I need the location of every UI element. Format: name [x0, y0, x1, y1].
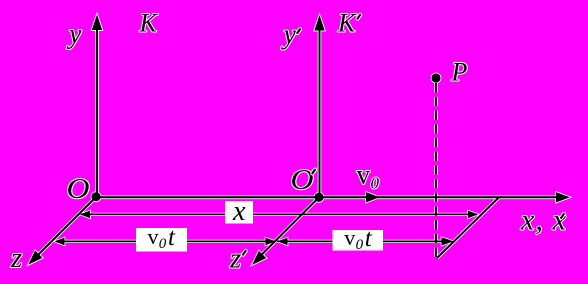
v0t right measure line	[277, 240, 452, 242]
svg-text:O: O	[291, 163, 314, 195]
svg-text:K: K	[139, 9, 159, 38]
z'-axis arrowhead	[252, 251, 266, 265]
y'-axis arrowhead	[314, 15, 324, 31]
y'-axis casing	[318, 25, 322, 197]
P projection dashed line casing	[434, 83, 437, 258]
z'-axis casing	[260, 197, 320, 256]
origin O dot	[91, 192, 100, 201]
y-axis	[96, 24, 98, 197]
v0t right measure arrowheads	[278, 238, 288, 246]
svg-text:v: v	[357, 160, 371, 190]
svg-text:t: t	[168, 224, 176, 251]
svg-text:y: y	[66, 19, 82, 50]
label K' prime tick	[358, 15, 361, 19]
z'-axis	[260, 197, 320, 256]
v0 arrowhead casing	[366, 192, 380, 202]
svg-text:O: O	[67, 172, 90, 204]
x measure line casing	[81, 213, 477, 216]
x,x'-axis arrowhead casing	[556, 192, 570, 202]
svg-text:z: z	[229, 243, 241, 275]
y'-axis arrowhead casing	[314, 15, 324, 31]
y'-axis	[319, 25, 321, 197]
svg-text:x: x	[232, 196, 246, 227]
v0t right measure line casing	[277, 240, 452, 243]
svg-text:v: v	[344, 225, 355, 250]
v0t left measure line casing	[56, 240, 275, 243]
label x, x' prime tick	[561, 214, 564, 218]
x label white box	[225, 201, 253, 224]
svg-text:K: K	[337, 9, 357, 38]
x measure line	[81, 213, 477, 215]
v0 arrowhead	[366, 192, 380, 202]
svg-text:y: y	[281, 20, 297, 51]
x,x'-axis casing	[96, 196, 557, 200]
v0t right label white box	[333, 230, 384, 251]
svg-text:0: 0	[371, 174, 380, 193]
svg-text:0: 0	[159, 236, 167, 252]
x,x'-axis arrowhead	[556, 192, 570, 202]
P projection dashed line	[435, 83, 437, 258]
svg-text:x, x: x, x	[520, 203, 567, 236]
label z' prime tick	[243, 251, 246, 255]
point P dot casing	[431, 73, 440, 82]
y-axis casing	[95, 24, 99, 197]
x,x'-axis	[96, 196, 557, 198]
svg-text:0: 0	[356, 237, 364, 253]
z'-axis arrowhead casing	[252, 251, 266, 265]
origin O dot casing	[91, 192, 100, 201]
x measure right arrowhead	[468, 211, 478, 219]
v0t left measure arrowheads casing	[55, 238, 65, 246]
y-axis arrowhead	[92, 15, 102, 31]
v0t left measure arrowheads	[55, 238, 65, 246]
v0t right measure arrowheads casing	[278, 238, 288, 246]
svg-text:z: z	[10, 242, 22, 274]
x measure left arrowhead	[80, 211, 90, 219]
plane right edge casing	[437, 197, 499, 258]
x measure left arrowhead casing	[80, 211, 90, 219]
z-axis arrowhead casing	[28, 251, 42, 265]
y-axis arrowhead casing	[92, 15, 102, 31]
v0t left label white box	[136, 228, 187, 252]
origin O' dot casing	[314, 193, 323, 202]
svg-text:t: t	[365, 225, 373, 252]
svg-text:P: P	[451, 58, 468, 87]
v0t left measure line	[56, 240, 275, 242]
plane right edge	[437, 197, 499, 258]
z-axis casing	[36, 197, 96, 257]
label O' prime tick	[312, 170, 315, 174]
z-axis	[36, 197, 96, 257]
label y' prime tick	[297, 29, 300, 33]
origin O' dot	[314, 193, 323, 202]
x measure right arrowhead casing	[468, 211, 478, 219]
point P dot	[431, 73, 440, 82]
svg-text:v: v	[148, 224, 159, 249]
z-axis arrowhead	[28, 251, 42, 265]
